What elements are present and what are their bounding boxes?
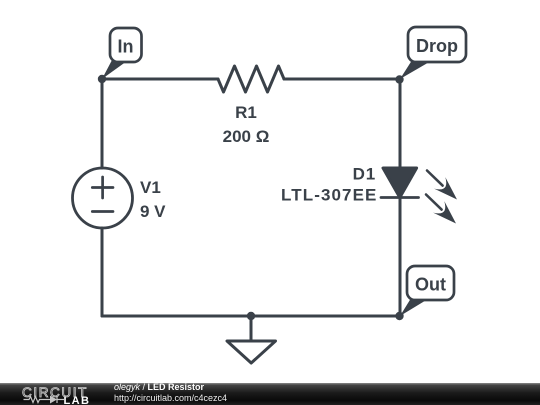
svg-text:R1: R1: [235, 103, 257, 122]
svg-text:LAB: LAB: [64, 395, 91, 405]
svg-text:LTL-307EE: LTL-307EE: [281, 186, 378, 205]
wire right vertical upper: [399, 79, 402, 168]
wire left vertical upper: [101, 79, 104, 168]
LED arrow 1: [427, 171, 443, 186]
node dot In: [98, 75, 106, 83]
svg-text:In: In: [118, 37, 134, 57]
LED arrow 2: [426, 195, 442, 210]
svg-text:V1: V1: [140, 178, 161, 197]
wire right vertical lower: [399, 198, 402, 317]
svg-text:Drop: Drop: [416, 36, 458, 56]
wire bottom horizontal: [102, 315, 400, 318]
flag tail Drop: [400, 61, 431, 79]
flag box Out: [407, 266, 454, 300]
svg-text:Out: Out: [415, 275, 446, 295]
wire top-left horizontal: [102, 78, 218, 81]
footer bar: [0, 383, 540, 405]
circuitlab logo: [0, 382, 110, 405]
ground: [250, 316, 253, 341]
node dot ground: [247, 312, 255, 320]
svg-text:9 V: 9 V: [140, 202, 166, 221]
voltage source V1: [73, 168, 133, 228]
flag tail In: [102, 61, 127, 79]
wire top-right horizontal: [284, 78, 400, 81]
flag box In: [110, 28, 142, 62]
flag box Drop: [408, 27, 466, 62]
node dot Drop: [395, 75, 403, 83]
LED arrowhead 1: [434, 177, 457, 199]
LED D1: [383, 168, 417, 198]
flag tail Out: [400, 299, 428, 316]
svg-text:D1: D1: [353, 165, 376, 184]
resistor R1: [218, 66, 284, 92]
node dot Out: [395, 312, 403, 320]
LED arrowhead 2: [433, 201, 456, 223]
wire left vertical lower: [101, 228, 104, 316]
svg-text:200 Ω: 200 Ω: [223, 127, 270, 146]
